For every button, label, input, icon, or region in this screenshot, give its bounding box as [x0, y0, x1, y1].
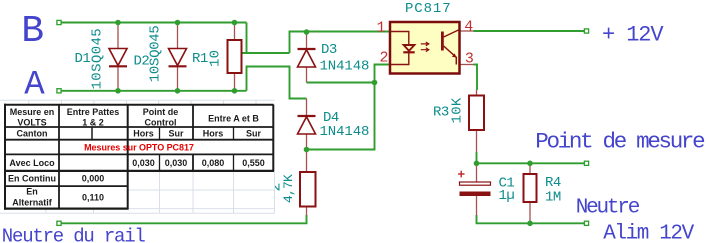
resistor R2 [300, 172, 316, 207]
svg-text:1N4148: 1N4148 [320, 59, 370, 75]
measurement table [0, 100, 275, 213]
lead D3 cathode [306, 32, 308, 49]
svg-text:Sur: Sur [168, 129, 184, 139]
svg-text:1N4148: 1N4148 [320, 124, 370, 140]
junction R3-C1 [474, 161, 480, 167]
svg-text:0,030: 0,030 [132, 158, 155, 168]
junction A-D2 [175, 88, 181, 94]
wire Neutre du rail [59, 215, 307, 223]
svg-text:Alim 12V: Alim 12V [603, 223, 694, 243]
junction pin2 node [372, 80, 378, 86]
svg-text:4,7K: 4,7K [281, 174, 296, 203]
resistor R1 [228, 40, 242, 73]
svg-text:Point de mesure: Point de mesure [535, 129, 705, 155]
svg-text:1 & 2: 1 & 2 [82, 117, 104, 127]
svg-text:Mesures sur OPTO PC817: Mesures sur OPTO PC817 [84, 143, 194, 153]
svg-text:4: 4 [464, 19, 473, 36]
svg-text:0,550: 0,550 [242, 158, 265, 168]
lead C1 bottom [476, 196, 478, 216]
wire A extension to D4 [247, 67, 307, 99]
svg-text:10SQ045: 10SQ045 [90, 28, 106, 90]
wire pin2 down to D4 anode node [307, 65, 391, 150]
svg-text:B: B [21, 10, 44, 53]
junction D4-R2 [304, 147, 310, 153]
lead R2 top [306, 150, 308, 173]
lead D2 bottom [177, 67, 179, 91]
wire D3 anode to pin2 node [307, 82, 375, 84]
wire C1 to neutre alim [477, 215, 587, 223]
wire pin4 to +12V [474, 30, 587, 32]
svg-text:R4: R4 [545, 175, 561, 191]
lead R4 top [529, 163, 531, 174]
junction A-R1 [232, 88, 238, 94]
lead R2 bottom [306, 207, 308, 216]
pad A [57, 89, 61, 93]
svg-text:D1: D1 [75, 51, 91, 67]
svg-text:1µ: 1µ [499, 188, 515, 204]
junction D3-pin1 [304, 29, 310, 35]
junction B-D1 [115, 20, 121, 26]
svg-text:Canton: Canton [17, 129, 48, 139]
svg-text:Mesure en: Mesure en [10, 107, 55, 117]
pad point de mesure [584, 161, 588, 165]
lead D2 top [177, 23, 179, 49]
resistor R4 [524, 174, 537, 202]
resistor R3 [469, 96, 484, 131]
opto-coupler U1 PC817 [390, 22, 460, 74]
svg-text:Neutre: Neutre [576, 197, 640, 220]
svg-text:Neutre du rail: Neutre du rail [2, 225, 146, 243]
svg-text:En: En [26, 187, 38, 197]
svg-text:10K: 10K [450, 97, 466, 123]
lead D4 cathode [306, 99, 308, 117]
wire R3 to point de mesure node [476, 152, 478, 163]
svg-text:Control: Control [145, 117, 177, 127]
svg-text:Point de: Point de [143, 107, 179, 117]
svg-text:3: 3 [465, 51, 474, 68]
svg-text:0,000: 0,000 [82, 174, 105, 184]
lead R1 top [234, 23, 236, 40]
lead D1 top [117, 23, 119, 49]
junction R4 bottom [527, 221, 533, 227]
pad neutre alim [584, 221, 588, 225]
diode D3 [298, 49, 316, 67]
svg-text:R3: R3 [433, 105, 449, 121]
svg-text:Sur: Sur [246, 129, 262, 139]
wire point de mesure [477, 162, 587, 164]
svg-text:En Continu: En Continu [8, 174, 56, 184]
diode D4 [298, 116, 316, 134]
svg-text:Avec Loco: Avec Loco [9, 158, 55, 168]
junction R4 top [527, 161, 533, 167]
svg-text:0,110: 0,110 [82, 193, 104, 203]
diode D1 [109, 49, 127, 67]
svg-text:PC817: PC817 [405, 1, 452, 17]
svg-text:10SQ045: 10SQ045 [148, 25, 164, 82]
junction B-D2 [175, 20, 181, 26]
wire B extension to pin1/D3 [243, 23, 391, 54]
svg-text:Alternatif: Alternatif [12, 198, 53, 208]
svg-text:VOLTS: VOLTS [17, 117, 46, 127]
pad neutre du rail [57, 221, 61, 225]
pad B [57, 20, 61, 24]
svg-text:Hors: Hors [133, 129, 154, 139]
lead R3 top [476, 90, 478, 96]
diode D2 [169, 49, 187, 67]
wire pin3 to R3 [474, 65, 478, 91]
svg-text:Hors: Hors [203, 129, 224, 139]
junction B-R1 [232, 20, 238, 26]
lead R3 bottom [476, 130, 478, 152]
pad +12V [584, 29, 588, 33]
svg-text:Entre A et B: Entre A et B [208, 113, 259, 123]
wire B rail [59, 22, 247, 24]
svg-text:+ 12V: + 12V [602, 23, 664, 48]
capacitor C1 [458, 171, 491, 196]
svg-text:D3: D3 [321, 42, 337, 58]
lead D3 anode [306, 68, 308, 83]
lead R4 bottom [529, 202, 531, 223]
lead R1 bottom [234, 73, 236, 91]
svg-text:R1: R1 [192, 51, 208, 67]
wire A rail [59, 90, 247, 92]
svg-text:0,080: 0,080 [202, 158, 225, 168]
pin3 stub U1 [460, 64, 474, 66]
svg-text:2: 2 [379, 49, 388, 66]
lead D1 bottom [117, 67, 119, 91]
svg-text:10: 10 [208, 50, 224, 67]
junction A-D1 [115, 88, 121, 94]
svg-text:0,030: 0,030 [165, 158, 188, 168]
lead C1 top [476, 163, 478, 182]
svg-text:1M: 1M [545, 190, 561, 206]
svg-text:Entre Pattes: Entre Pattes [67, 107, 120, 117]
pin4 stub U1 [460, 30, 474, 32]
svg-text:1: 1 [376, 19, 385, 36]
lead D4 anode [306, 134, 308, 150]
svg-text:A: A [24, 67, 45, 105]
